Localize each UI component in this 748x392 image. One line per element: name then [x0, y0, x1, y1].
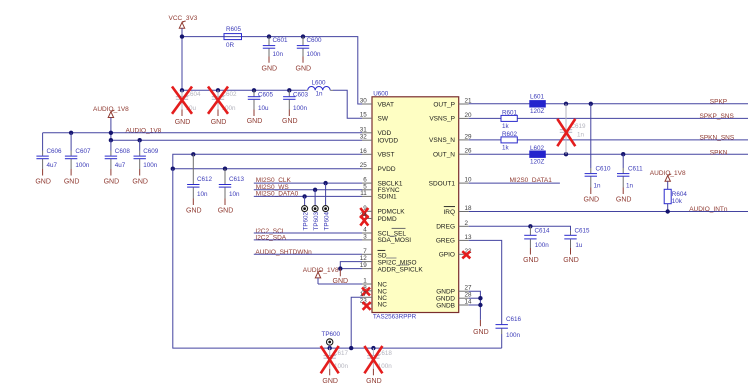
wire GNDP/GNDD/GNDB bundle: [469, 291, 483, 320]
svg-text:TP602: TP602: [302, 211, 309, 230]
pin 17 NC: [360, 291, 387, 302]
pin 22 GPIO (crossed): [439, 248, 472, 259]
ground C618: [366, 369, 382, 385]
wire GREG pin13 to C616: [469, 240, 502, 324]
svg-text:C616: C616: [506, 316, 522, 323]
net MI2S0_CLK: [254, 177, 362, 184]
power flag VCC_3V3: [169, 15, 198, 37]
resistor R604: [664, 189, 687, 211]
ground C601: [262, 57, 278, 73]
ground C608: [104, 169, 120, 185]
ground pin19: [333, 269, 349, 286]
svg-text:AUDIO_INTn: AUDIO_INTn: [689, 206, 728, 213]
X over C604: [172, 87, 192, 114]
svg-text:C607: C607: [75, 148, 91, 155]
capacitor C601: [263, 34, 288, 58]
svg-text:GND: GND: [282, 118, 298, 125]
svg-text:L601: L601: [530, 93, 545, 100]
capacitor C604 (DNP crossed): [176, 88, 201, 112]
svg-text:32: 32: [360, 134, 368, 141]
wire ADDR_SPICLK pin19: [340, 268, 362, 270]
pin 28 GNDD: [436, 292, 472, 303]
power flag AUDIO_1V8 mid: [303, 267, 339, 284]
svg-text:7: 7: [363, 248, 367, 255]
svg-text:1n: 1n: [316, 90, 324, 97]
svg-text:SPKP_SNS: SPKP_SNS: [700, 113, 735, 120]
ground C603: [282, 110, 298, 126]
capacitor C603: [283, 88, 308, 112]
svg-text:31: 31: [360, 126, 368, 133]
svg-text:SPI2C_MISO: SPI2C_MISO: [378, 259, 417, 266]
node VCC junction: [180, 34, 184, 38]
X over C617: [321, 346, 339, 373]
svg-text:C612: C612: [197, 176, 213, 183]
svg-text:2: 2: [465, 220, 469, 227]
wire NC pin17 to rail: [351, 297, 362, 348]
svg-text:C608: C608: [115, 148, 131, 155]
ground C605: [247, 110, 263, 126]
op-amp U600 TAS2563RPPR body: [372, 91, 459, 321]
svg-text:18: 18: [465, 205, 473, 212]
X over C602: [208, 87, 228, 114]
svg-text:C603: C603: [293, 91, 309, 98]
svg-text:SPKP: SPKP: [710, 98, 727, 105]
pin 5 FSYNC: [362, 183, 400, 194]
svg-text:SW: SW: [378, 116, 389, 123]
wires top VCC rail: [182, 37, 362, 119]
ground C617: [322, 369, 338, 385]
svg-text:100n: 100n: [506, 332, 521, 339]
power flag AUDIO_1V8 right: [650, 170, 686, 189]
svg-text:PVDD: PVDD: [378, 166, 396, 173]
svg-text:SDOUT1: SDOUT1: [429, 180, 456, 187]
capacitor C609: [134, 140, 159, 169]
pin 8 NC (crossed): [362, 284, 387, 295]
net MI2S0_DATA0: [254, 190, 362, 197]
svg-text:C613: C613: [229, 176, 245, 183]
svg-text:OUT_P: OUT_P: [433, 101, 455, 108]
svg-text:DREG: DREG: [436, 224, 455, 231]
test point TP600: [322, 331, 341, 348]
pin 3 SDA_MOSI: [362, 233, 411, 244]
test point TP602: [302, 194, 310, 230]
svg-text:R605: R605: [226, 26, 242, 33]
svg-text:GND: GND: [616, 197, 632, 204]
svg-text:I2C2_SDA: I2C2_SDA: [255, 235, 286, 242]
X over C618: [364, 346, 382, 373]
svg-text:GPIO: GPIO: [439, 252, 455, 259]
ground C612: [186, 199, 202, 215]
net MI2S0_WS: [254, 184, 362, 191]
svg-text:AUDIO_SHTDWNn: AUDIO_SHTDWNn: [255, 249, 312, 256]
svg-text:GND: GND: [64, 178, 80, 185]
pin 16 VBST: [360, 148, 395, 159]
svg-text:20: 20: [465, 112, 473, 119]
svg-text:C600: C600: [307, 37, 323, 44]
svg-text:100n: 100n: [143, 162, 158, 169]
svg-text:1u: 1u: [575, 242, 583, 249]
wire DREG pin2: [469, 226, 571, 230]
svg-text:10n: 10n: [229, 191, 240, 198]
inductor L600: [305, 80, 333, 98]
ground C615: [563, 248, 579, 264]
svg-text:TP604: TP604: [323, 211, 330, 230]
ground C607: [64, 169, 80, 185]
svg-text:TAS2563RPPR: TAS2563RPPR: [373, 314, 417, 321]
svg-text:VDD: VDD: [378, 130, 392, 137]
wire PVDD pin25: [173, 168, 362, 170]
ground C609: [132, 169, 148, 185]
capacitor C610: [585, 102, 611, 190]
svg-text:30: 30: [360, 98, 368, 105]
svg-text:12: 12: [360, 255, 368, 262]
capacitor C614: [524, 224, 550, 249]
svg-text:100n: 100n: [75, 162, 90, 169]
svg-text:11: 11: [360, 190, 367, 197]
svg-text:GND: GND: [563, 257, 579, 264]
net AUDIO_SHTDWNn: [254, 249, 362, 256]
svg-text:29: 29: [465, 133, 473, 140]
wire OUT_P to SPKP: [469, 103, 748, 105]
ground C611: [616, 188, 632, 204]
ground C610: [584, 188, 600, 204]
svg-text:10n: 10n: [273, 51, 284, 58]
svg-text:10k: 10k: [672, 198, 683, 205]
svg-text:120Z: 120Z: [530, 159, 545, 166]
svg-text:GNDB: GNDB: [436, 302, 455, 309]
wire SPI2C_MISO pin12: [340, 262, 362, 269]
capacitor C611: [617, 152, 643, 190]
svg-text:3: 3: [363, 233, 367, 240]
svg-text:GREG: GREG: [436, 238, 455, 245]
node rail A dots: [69, 131, 73, 135]
pin 29 VSNS_N: [429, 133, 472, 144]
svg-text:C611: C611: [628, 165, 643, 172]
ground GNDP/GNDD/GNDB: [473, 320, 489, 336]
wire rail A VDD: [43, 132, 362, 134]
svg-text:C606: C606: [47, 148, 63, 155]
wire long vertical to bottom rail: [173, 169, 502, 348]
svg-text:10n: 10n: [197, 191, 208, 198]
svg-text:GND: GND: [523, 257, 539, 264]
svg-text:100n: 100n: [535, 242, 550, 249]
capacitor C600: [297, 34, 322, 58]
svg-text:GND: GND: [218, 208, 234, 215]
pin 11 SDIN1: [360, 190, 397, 201]
svg-text:IRQ: IRQ: [443, 209, 455, 216]
pin 20 VSNS_P: [429, 112, 472, 123]
wire NC pin1: [318, 283, 362, 285]
pin 31 VDD: [360, 126, 392, 137]
pin 7 SD: [362, 248, 387, 260]
svg-text:26: 26: [465, 148, 473, 155]
svg-text:GND: GND: [296, 66, 312, 73]
svg-text:VSNS_N: VSNS_N: [429, 137, 455, 144]
svg-text:1n: 1n: [594, 183, 602, 190]
wire OUT_N to SPKN: [469, 153, 748, 155]
svg-text:SPKN: SPKN: [710, 150, 728, 157]
svg-text:U600: U600: [373, 91, 389, 98]
svg-text:10u: 10u: [258, 105, 269, 112]
svg-text:GNDP: GNDP: [436, 289, 455, 296]
net I2C2_SDA: [254, 235, 362, 242]
svg-text:GND: GND: [35, 178, 51, 185]
wire rail B IOVDD: [111, 139, 362, 141]
svg-text:OUT_N: OUT_N: [433, 152, 455, 159]
ground C613: [218, 199, 234, 215]
pin 32 IOVDD: [360, 134, 399, 145]
net MI2S0_DATA1: [469, 177, 560, 184]
capacitor C619 (DNP crossed): [560, 102, 586, 157]
svg-text:C605: C605: [258, 91, 274, 98]
svg-text:VBAT: VBAT: [378, 101, 395, 108]
svg-text:13: 13: [465, 234, 473, 241]
svg-text:GND: GND: [211, 119, 227, 126]
svg-text:27: 27: [465, 285, 473, 292]
svg-text:VBST: VBST: [378, 152, 395, 159]
test point TP604: [323, 181, 331, 231]
svg-text:GND: GND: [366, 378, 382, 385]
svg-text:15: 15: [360, 112, 368, 119]
svg-text:1k: 1k: [502, 123, 510, 130]
pin 15 SW: [360, 112, 389, 123]
pin 24 PDMD (crossed): [360, 212, 397, 226]
svg-text:R604: R604: [672, 191, 688, 198]
ground C606: [35, 169, 51, 185]
ground C602: [211, 110, 227, 126]
svg-text:VCC_3V3: VCC_3V3: [169, 15, 198, 22]
inductor L602: [530, 145, 546, 166]
svg-text:SDA_MOSI: SDA_MOSI: [378, 237, 412, 244]
inductor L601: [530, 93, 546, 115]
net I2C2_SCL: [254, 228, 362, 235]
pin 2 DREG: [436, 220, 468, 231]
ground C604: [175, 110, 191, 126]
pin 14 GNDB: [436, 299, 472, 310]
pin 23 NC (crossed): [360, 297, 387, 309]
pin 30 VBAT: [360, 98, 394, 109]
svg-text:IOVDD: IOVDD: [378, 138, 399, 145]
capacitor C606: [36, 133, 62, 169]
node rail dots: [328, 346, 332, 350]
pin 9 PDMCLK (crossed): [360, 205, 405, 218]
svg-text:100n: 100n: [293, 105, 308, 112]
pin 12 SPI2C_MISO: [360, 255, 417, 266]
svg-text:120Z: 120Z: [530, 108, 545, 115]
wire rail link: [110, 133, 112, 140]
svg-text:0R: 0R: [226, 42, 235, 49]
svg-text:VSNS_P: VSNS_P: [429, 116, 455, 123]
svg-text:GND: GND: [247, 118, 263, 125]
capacitor C617 (DNP crossed): [324, 348, 349, 370]
pin 26 OUT_N: [433, 148, 472, 159]
wire VSNS_P to SPKP_SNS: [469, 117, 748, 119]
svg-text:19: 19: [360, 262, 368, 269]
pin 4 SCL_SEL: [362, 227, 406, 238]
resistor R601: [501, 109, 518, 130]
power flag AUDIO_1V8 left: [93, 106, 129, 133]
node R604 junction: [666, 209, 670, 213]
svg-text:25: 25: [360, 162, 368, 169]
capacitor C612: [187, 152, 212, 198]
svg-text:PDMD: PDMD: [378, 216, 397, 223]
svg-text:R602: R602: [502, 131, 518, 138]
svg-text:16: 16: [360, 148, 368, 155]
ground C614: [523, 248, 539, 264]
pin 13 GREG: [436, 234, 472, 245]
wire VSNS_N to SPKN_SNS: [469, 139, 748, 141]
capacitor C618 (DNP crossed): [367, 348, 392, 370]
svg-text:SDIN1: SDIN1: [378, 194, 398, 201]
svg-text:GND: GND: [175, 119, 191, 126]
pin 21 OUT_P: [433, 98, 472, 109]
capacitor C607: [65, 133, 91, 169]
svg-text:C610: C610: [596, 165, 612, 172]
svg-text:GND: GND: [473, 329, 489, 336]
svg-text:GND: GND: [186, 208, 202, 215]
wire VBST pin16: [173, 154, 362, 168]
pin 6 SBCLK1: [362, 177, 403, 188]
capacitor C616: [496, 316, 522, 348]
svg-text:C601: C601: [273, 37, 289, 44]
node rail B dots: [109, 138, 113, 142]
X over C619: [557, 119, 575, 146]
capacitor C615: [564, 227, 590, 249]
svg-text:4u7: 4u7: [47, 162, 58, 169]
svg-text:GND: GND: [584, 197, 600, 204]
node pin12/19 junction: [338, 266, 342, 270]
svg-text:TP603: TP603: [313, 211, 320, 230]
svg-text:L602: L602: [530, 145, 545, 152]
pin 18 IRQ: [443, 205, 472, 216]
svg-text:4u7: 4u7: [115, 162, 126, 169]
svg-text:14: 14: [465, 299, 473, 306]
capacitor C602 (DNP crossed): [212, 88, 237, 112]
capacitor C605: [248, 88, 274, 112]
svg-text:GND: GND: [262, 66, 278, 73]
svg-text:10: 10: [465, 177, 473, 184]
capacitor C613: [219, 167, 245, 199]
svg-text:GND: GND: [132, 178, 148, 185]
svg-text:100n: 100n: [307, 51, 322, 58]
svg-text:GND: GND: [322, 378, 338, 385]
svg-text:GND: GND: [104, 178, 120, 185]
pin 1 NC: [362, 278, 387, 289]
svg-text:1n: 1n: [577, 132, 585, 139]
pin 10 SDOUT1: [429, 177, 472, 188]
svg-text:ADDR_SPICLK: ADDR_SPICLK: [378, 266, 424, 273]
svg-text:TP600: TP600: [322, 331, 341, 338]
svg-text:R601: R601: [502, 109, 518, 116]
svg-text:NC: NC: [378, 302, 388, 309]
capacitor C608: [105, 140, 131, 169]
resistor R602: [501, 131, 518, 152]
resistor R605: [224, 26, 242, 49]
pin 27 GNDP: [436, 285, 472, 296]
pin 25 PVDD: [360, 162, 396, 173]
svg-text:SPKN_SNS: SPKN_SNS: [700, 134, 735, 141]
svg-text:L600: L600: [312, 80, 327, 87]
svg-text:PDMCLK: PDMCLK: [378, 209, 406, 216]
svg-text:1n: 1n: [626, 183, 634, 190]
svg-text:C614: C614: [535, 227, 551, 234]
node PVDD corner: [171, 167, 175, 171]
wire IRQ to AUDIO_INTn: [469, 211, 748, 213]
svg-text:C615: C615: [575, 227, 591, 234]
test point TP603: [312, 188, 320, 231]
svg-text:C609: C609: [143, 148, 159, 155]
svg-text:1k: 1k: [502, 145, 510, 152]
pin 19 ADDR_SPICLK: [360, 262, 424, 273]
ground C600: [296, 57, 312, 73]
svg-text:AUDIO_1V8: AUDIO_1V8: [126, 128, 162, 135]
